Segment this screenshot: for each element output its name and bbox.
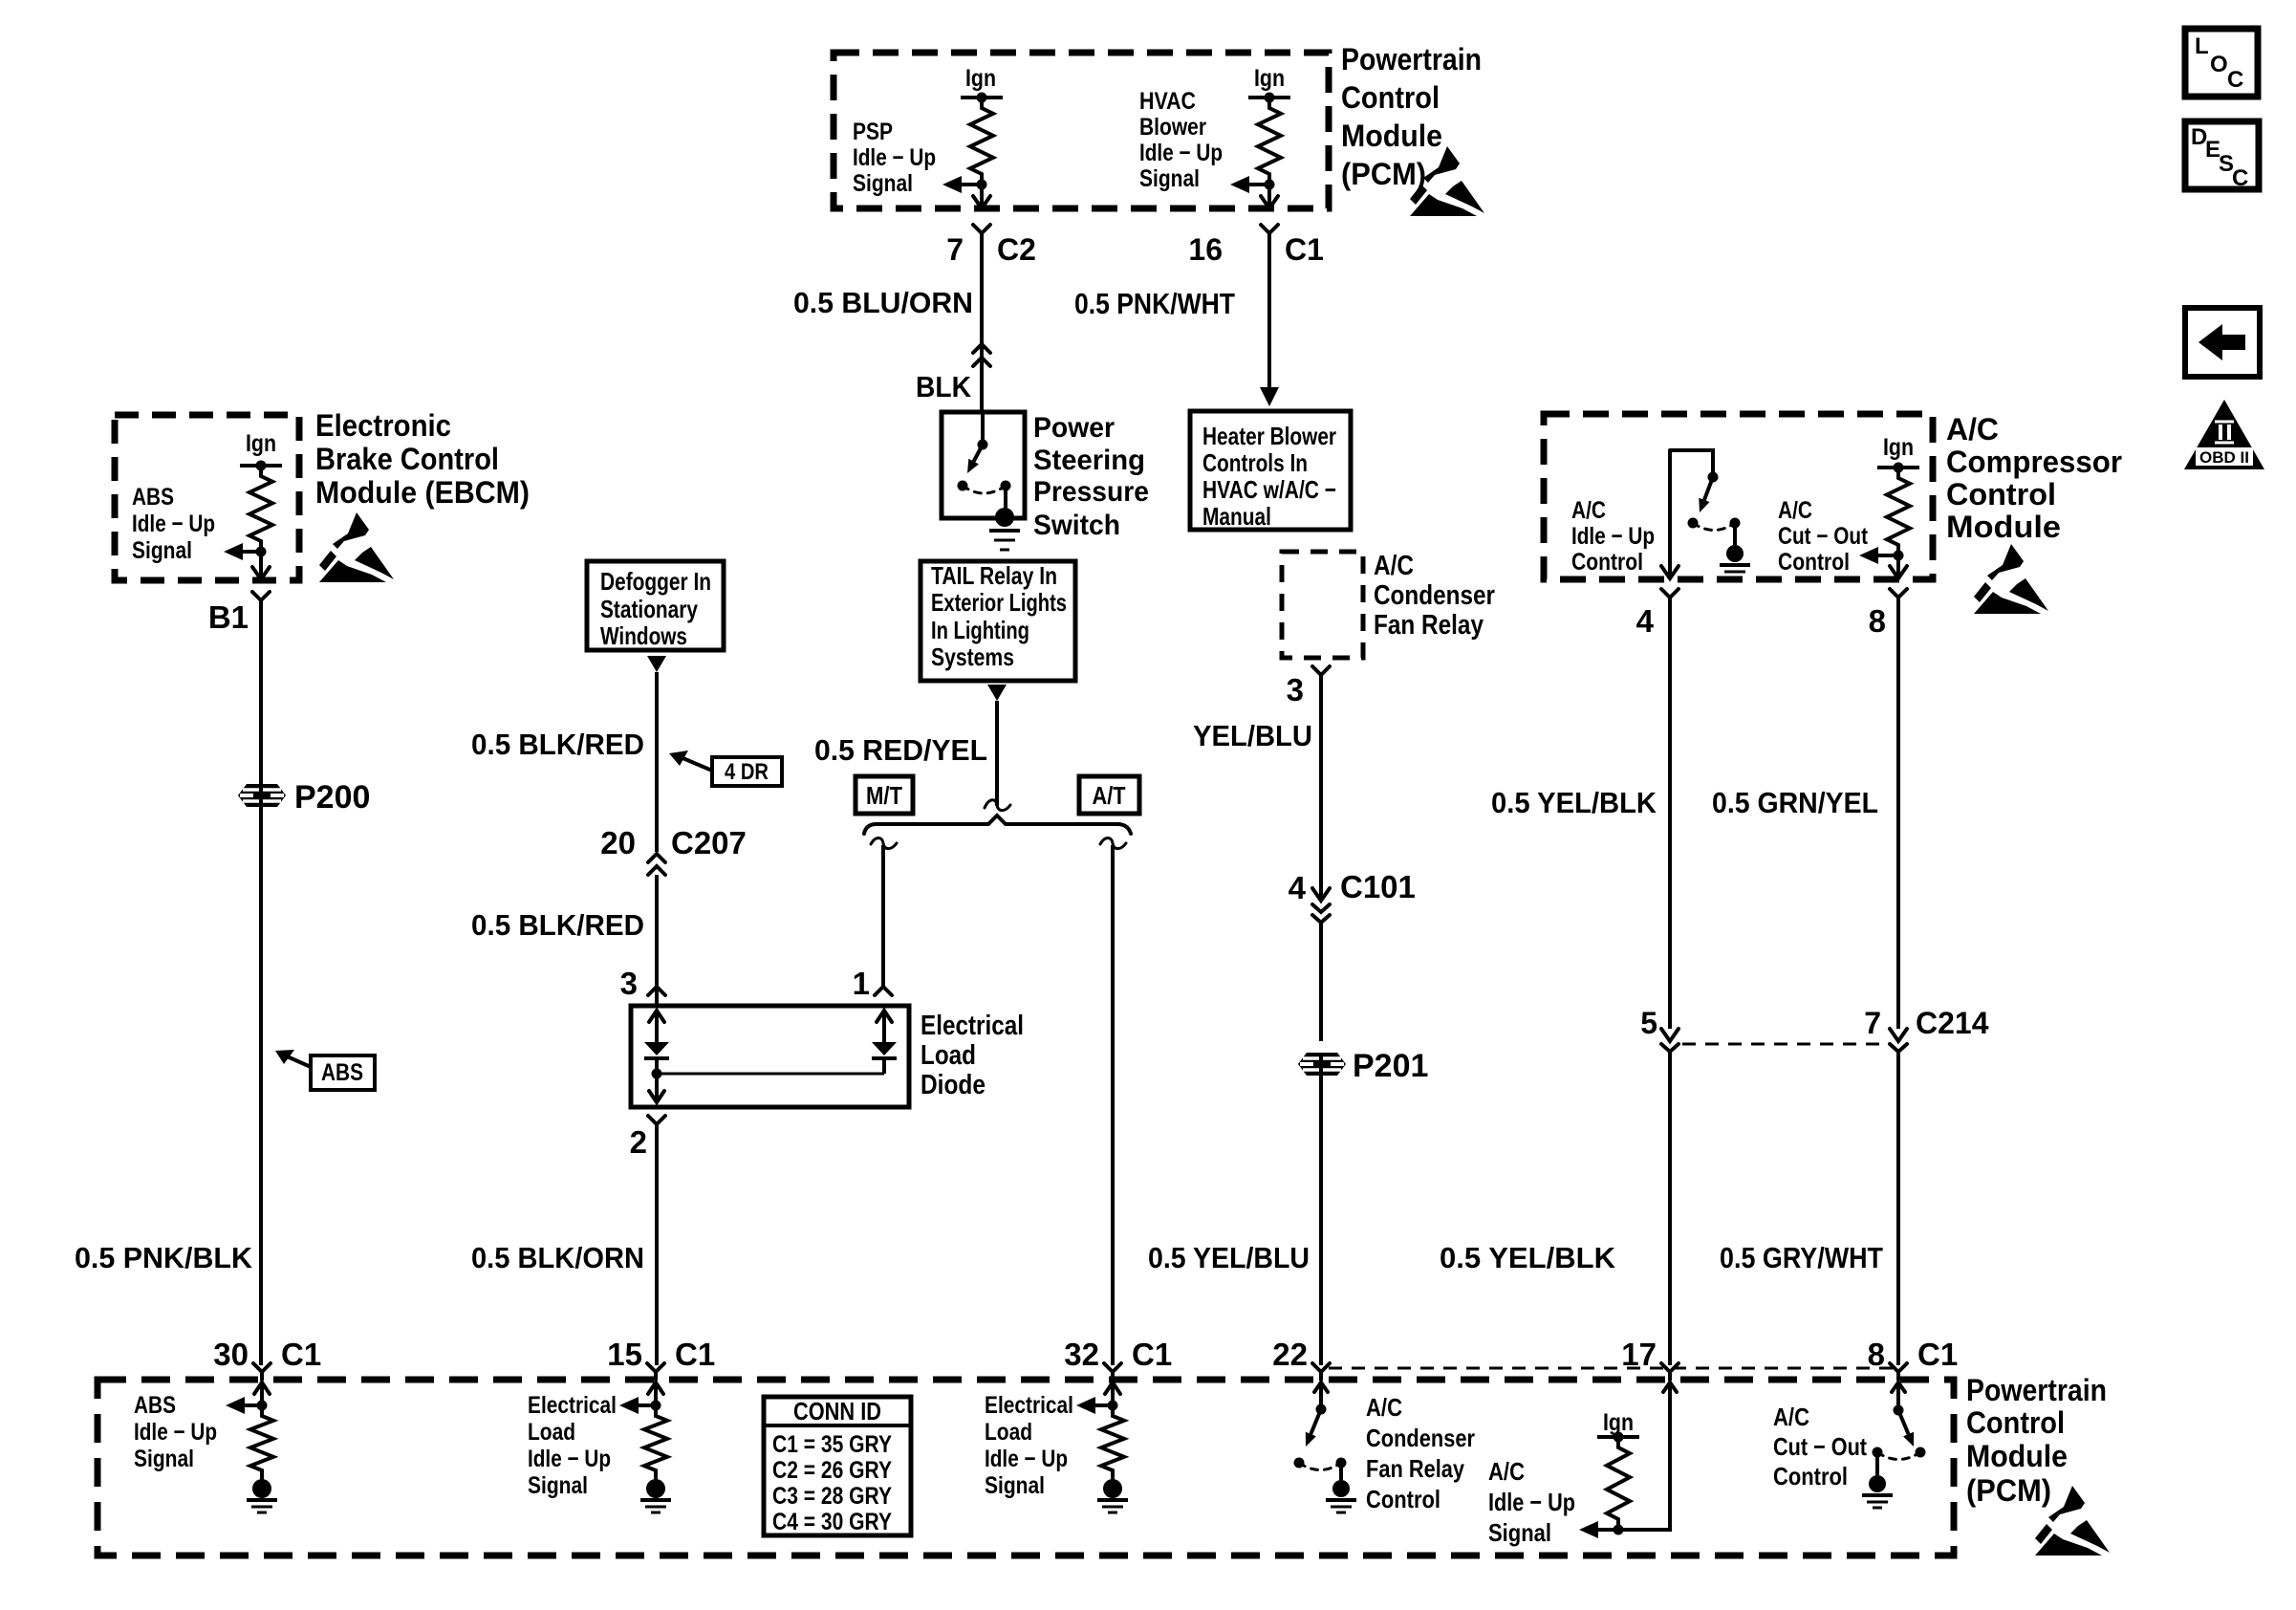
svg-text:A/C: A/C [1374, 551, 1414, 581]
svg-text:A/T: A/T [1093, 781, 1126, 810]
svg-text:Manual: Manual [1202, 502, 1271, 531]
connector C214 pin 5 (arrow + chevron) [1661, 1029, 1679, 1069]
wire A/C idle-up to pin 4 + arrow [1661, 450, 1679, 578]
svg-text:Electrical: Electrical [985, 1392, 1073, 1419]
label pin 20 (C207) [600, 825, 636, 860]
svg-text:Fan Relay: Fan Relay [1366, 1454, 1464, 1483]
label pin 1 (diode) [853, 966, 870, 1001]
label pin 30 bottom [213, 1337, 249, 1372]
label B1 [208, 599, 249, 635]
label P201 [1353, 1048, 1428, 1084]
wire C207 to diode box [655, 875, 659, 1004]
node PSP switch top contact [978, 412, 988, 450]
ground PSP switch [989, 508, 1020, 550]
wire TAIL relay to options brace [995, 701, 999, 806]
connector pin 8 bottom (female Y) [1890, 1363, 1907, 1380]
label TAIL Relay In Exterior Lights In Lighting Systems [931, 561, 1067, 671]
switch travel arc PSP (dashed) [963, 486, 1006, 493]
svg-text:4: 4 [1636, 603, 1655, 639]
label Ign (ABS feed) [246, 430, 276, 457]
svg-text:P200: P200 [294, 779, 370, 816]
arrow signal (left) ABS idle-up (PCM) [226, 1397, 262, 1414]
esd symbol (A/C compressor module) [1974, 544, 2048, 614]
wire PSP pin exit + arrow pin 7 [973, 185, 990, 208]
svg-text:Electrical: Electrical [921, 1011, 1024, 1041]
node A/C idle-up open contact [1688, 518, 1699, 529]
connector pin 15 bottom (female Y) [647, 1363, 664, 1380]
svg-text:C: C [2227, 67, 2243, 93]
svg-text:YEL/BLU: YEL/BLU [1193, 719, 1312, 752]
svg-text:Blower: Blower [1139, 114, 1206, 141]
label C1 (pin16) [1285, 232, 1324, 267]
svg-text:3: 3 [620, 966, 638, 1001]
wire C214-7 to pin 8 bottom [1896, 1069, 1900, 1365]
node junction Electrical Load idle-up (PCM pin32) [1108, 1401, 1118, 1411]
svg-text:Idle − Up: Idle − Up [132, 511, 215, 537]
connector pin 3 (fan relay, female Y) [1312, 666, 1330, 683]
svg-text:Signal: Signal [1488, 1518, 1551, 1547]
svg-text:Module (EBCM): Module (EBCM) [315, 475, 530, 510]
label Defogger In Stationary Windows [600, 567, 711, 650]
wire EBCM pin exit + arrow B1 [252, 552, 270, 579]
label A/C Condenser Fan Relay Control [1366, 1393, 1475, 1513]
label pin 3 (diode) [620, 966, 638, 1001]
wire squiggle (A/T branch top) [1100, 838, 1126, 849]
node A/C cut-out contact (left) [1873, 1447, 1883, 1476]
node junction ABS idle-up (PCM) [257, 1401, 268, 1411]
label Powertrain Control Module (PCM) bottom [1966, 1373, 2107, 1508]
svg-text:C101: C101 [1340, 869, 1416, 904]
label Electrical Load idle-up (PCM pin15) [528, 1392, 617, 1499]
wire C214-5 to pin 17 [1668, 1069, 1672, 1365]
label C2 [997, 232, 1036, 267]
connector pin B1 (female Y) [252, 592, 270, 608]
label 0.5 GRN/YEL [1712, 786, 1878, 819]
svg-text:C4 = 30 GRY: C4 = 30 GRY [772, 1509, 892, 1535]
wire pin3 to C101 [1319, 683, 1323, 900]
label Ign (PSP feed) [965, 65, 996, 92]
svg-text:Cut − Out: Cut − Out [1773, 1432, 1867, 1461]
ground A/C idle-up switch [1720, 545, 1750, 577]
connector pin 8 top (female Y) [1890, 589, 1907, 605]
ground A/C cut-out switch [1862, 1475, 1893, 1508]
svg-text:Signal: Signal [985, 1472, 1045, 1499]
connector C207 chevrons [648, 854, 665, 875]
label 0.5 BLU/ORN [793, 286, 973, 319]
svg-text:C3 = 28 GRY: C3 = 28 GRY [772, 1483, 892, 1510]
arrow pin entry (up) ABS idle-up (PCM) [254, 1382, 270, 1405]
label C4 = 30 GRY [772, 1509, 892, 1535]
svg-text:Controls In: Controls In [1202, 448, 1308, 477]
svg-text:Electronic: Electronic [315, 408, 451, 443]
resistor A/C cut-out control [1887, 468, 1910, 555]
label C1 (pin 30) [281, 1337, 321, 1372]
label pin 5 (C214) [1640, 1006, 1657, 1040]
svg-text:22: 22 [1272, 1337, 1308, 1372]
svg-text:BLK: BLK [916, 370, 972, 403]
wire pin7 to PSP switch [980, 241, 984, 412]
label Ign (A/C cut-out) [1883, 434, 1914, 461]
options brace [864, 816, 1131, 834]
svg-text:20: 20 [600, 825, 636, 860]
svg-text:A/C: A/C [1778, 497, 1812, 524]
label 0.5 YEL/BLK (upper) [1491, 786, 1657, 819]
resistor A/C idle-up signal (PCM) [1607, 1437, 1630, 1530]
svg-text:Module: Module [1946, 510, 2061, 544]
svg-text:A/C: A/C [1488, 1457, 1525, 1486]
label pin 32 bottom [1064, 1337, 1099, 1372]
svg-text:C2 = 26 GRY: C2 = 26 GRY [772, 1457, 892, 1484]
svg-text:Ign: Ign [246, 430, 276, 457]
arrow pin entry (up) A/C cut-out [1892, 1382, 1905, 1405]
svg-text:0.5 RED/YEL: 0.5 RED/YEL [814, 733, 987, 767]
svg-text:Windows: Windows [600, 621, 687, 650]
node fan relay open contact [1294, 1458, 1305, 1469]
splice P201 [1298, 1053, 1346, 1076]
svg-text:A/C: A/C [1571, 497, 1606, 524]
connector pin 7 C2 (female Y) [973, 225, 990, 241]
arrow out of defogger box [647, 656, 666, 672]
label 0.5 RED/YEL [814, 733, 987, 767]
label pin 17 bottom [1621, 1337, 1657, 1372]
switch arm PSP [967, 445, 983, 473]
connector pin 17 bottom (female Y) [1661, 1363, 1679, 1380]
node A/C cut-out junction [1894, 551, 1904, 561]
svg-text:8: 8 [1868, 1337, 1885, 1372]
svg-text:CONN ID: CONN ID [793, 1397, 881, 1425]
ground ABS idle-up (PCM) [247, 1479, 277, 1512]
label A/C Compressor Control Module [1946, 412, 2122, 544]
svg-text:4 DR: 4 DR [725, 759, 769, 785]
box Electrical Load Diode [631, 1006, 909, 1107]
resistor ABS idle-up (PCM) [250, 1405, 273, 1481]
label pin 8 top [1869, 603, 1886, 639]
svg-text:ABS: ABS [132, 484, 174, 511]
svg-text:Signal: Signal [134, 1446, 194, 1472]
arrow PSP idle-up signal (left) [942, 176, 982, 193]
switch travel arc A/C cut-out (dashed) [1877, 1452, 1920, 1460]
svg-text:3: 3 [1287, 672, 1304, 707]
label C101 [1340, 869, 1416, 904]
label Electrical Load Diode [921, 1011, 1024, 1100]
svg-text:HVAC w/A/C −: HVAC w/A/C − [1202, 475, 1336, 504]
label pin 16 [1188, 232, 1223, 267]
resistor ABS idle-up signal (EBCM) [249, 466, 272, 552]
svg-text:Defogger In: Defogger In [600, 567, 711, 596]
label 0.5 BLK/ORN [471, 1241, 644, 1274]
svg-text:Control: Control [1966, 1405, 2065, 1440]
resistor PSP idle-up signal [970, 98, 993, 185]
wire defogger to C207 [655, 672, 659, 852]
node HVAC signal junction [1265, 180, 1275, 190]
svg-text:C1: C1 [281, 1337, 321, 1372]
svg-text:C1: C1 [1285, 232, 1324, 267]
box A/C Condenser Fan Relay (dashed) [1282, 552, 1363, 658]
resistor Electrical Load idle-up (PCM pin15) [644, 1405, 667, 1481]
svg-text:Load: Load [985, 1419, 1032, 1446]
svg-text:Idle − Up: Idle − Up [1571, 523, 1655, 550]
arrow signal (left) Electrical Load idle-up (PCM pin15) [619, 1397, 656, 1414]
connector C214 pin 7 (arrow + chevron) [1890, 1029, 1907, 1069]
svg-text:Control: Control [1341, 80, 1440, 115]
module PCM (bottom) dashed box [97, 1380, 1954, 1556]
wire diode right branch + arrow [877, 1011, 892, 1074]
svg-text:(PCM): (PCM) [1341, 157, 1426, 191]
wire Ign tick (ABS) [240, 461, 282, 471]
svg-text:C: C [2232, 165, 2248, 191]
connector chevron pin 3 (diode in) [648, 987, 665, 995]
connector pin 32 bottom (female Y) [1104, 1363, 1121, 1380]
svg-text:Module: Module [1341, 119, 1442, 153]
label pin 22 bottom [1272, 1337, 1308, 1372]
label 0.5 GRY/WHT [1720, 1241, 1883, 1274]
label Electrical Load idle-up (PCM pin32) [985, 1392, 1073, 1499]
node ABS signal junction (EBCM) [256, 547, 267, 557]
label 0.5 PNK/WHT [1074, 287, 1235, 320]
label ABS Idle-Up Signal (EBCM) [132, 484, 215, 564]
node A/C idle-up pivot [1708, 472, 1719, 483]
svg-text:Switch: Switch [1033, 510, 1120, 541]
label ABS idle-up (PCM) [134, 1392, 217, 1472]
wire B1 to P200 [259, 608, 263, 784]
icon back-arrow box [2185, 308, 2260, 377]
svg-text:Condenser: Condenser [1366, 1424, 1475, 1452]
connector pin 4 (female Y) [1661, 589, 1679, 605]
svg-text:Powertrain: Powertrain [1966, 1373, 2107, 1407]
arrow pin entry (up) Electrical Load idle-up (PCM pin15) [648, 1382, 663, 1405]
svg-text:7: 7 [1864, 1006, 1881, 1040]
svg-text:0.5 BLK/RED: 0.5 BLK/RED [471, 908, 644, 942]
svg-text:Condenser: Condenser [1374, 580, 1495, 611]
label C207 [671, 825, 747, 860]
svg-text:C1 = 35 GRY: C1 = 35 GRY [772, 1431, 892, 1458]
ground Electrical Load idle-up (PCM pin32) [1097, 1479, 1128, 1512]
svg-text:C207: C207 [671, 825, 747, 860]
svg-text:Brake Control: Brake Control [315, 442, 499, 476]
svg-text:Control: Control [1946, 477, 2056, 511]
switch travel arc A/C idle-up (dashed) [1693, 523, 1735, 531]
label PSP Idle-Up Signal [853, 119, 936, 197]
node A/C cut-out closed contact (right) [1916, 1447, 1926, 1458]
label 0.5 PNK/BLK [75, 1241, 253, 1274]
label Powertrain Control Module (PCM) top [1341, 42, 1482, 191]
diode D2 (right) [872, 1042, 897, 1058]
svg-text:M/T: M/T [866, 781, 902, 810]
wire A/C cut-out to pin 8 + arrow [1890, 555, 1907, 578]
label Ign (A/C idle-up PCM) [1603, 1409, 1634, 1436]
svg-text:7: 7 [946, 232, 964, 267]
ground fan relay control switch [1326, 1480, 1356, 1512]
svg-text:30: 30 [213, 1337, 249, 1372]
wire A/T branch to pin 32 [1111, 845, 1115, 1365]
connector pin 30 bottom (female Y) [253, 1363, 271, 1380]
module PCM (top) dashed box [834, 53, 1329, 208]
wire squiggle (TAIL end) [985, 800, 1010, 811]
connector chevron pin 1 (diode in) [875, 987, 892, 995]
node fan relay closed contact [1336, 1458, 1347, 1481]
label P200 [294, 779, 370, 816]
svg-text:C1: C1 [1917, 1337, 1958, 1372]
wire junction to pin 17 + arrow [1618, 1382, 1677, 1530]
svg-text:Idle − Up: Idle − Up [1139, 140, 1223, 166]
switch arm A/C cut-out (PCM) [1898, 1410, 1914, 1447]
svg-text:Ign: Ign [965, 65, 996, 92]
splice P200 [238, 784, 286, 807]
esd symbol (top PCM) [1410, 146, 1484, 216]
svg-text:0.5 BLU/ORN: 0.5 BLU/ORN [793, 286, 973, 319]
svg-text:Signal: Signal [1139, 165, 1200, 192]
svg-text:OBD II: OBD II [2199, 448, 2249, 467]
esd symbol (EBCM) [319, 512, 394, 582]
arrow into heater blower box [1260, 387, 1279, 406]
svg-text:Load: Load [528, 1419, 575, 1446]
label Electronic Brake Control Module (EBCM) [315, 408, 530, 510]
svg-text:Cut − Out: Cut − Out [1778, 523, 1869, 550]
wire pin4 to C214 [1668, 605, 1672, 1029]
svg-text:A/C: A/C [1366, 1393, 1402, 1422]
svg-text:Load: Load [921, 1040, 976, 1071]
wire M/T branch to diode pin 1 [881, 845, 885, 987]
svg-text:Electrical: Electrical [528, 1392, 617, 1419]
label C1 = 35 GRY [772, 1431, 892, 1458]
wire A/C idle-up jog [1670, 450, 1713, 472]
box Defogger In Stationary Windows [587, 561, 724, 650]
wire P201 to pin 22 [1319, 1076, 1323, 1365]
svg-text:0.5 YEL/BLU: 0.5 YEL/BLU [1148, 1241, 1310, 1274]
svg-text:2: 2 [630, 1124, 647, 1160]
svg-text:Idle − Up: Idle − Up [985, 1446, 1068, 1472]
wire Ign tick (A/C idle-up PCM) [1597, 1432, 1639, 1443]
svg-text:C2: C2 [997, 232, 1036, 267]
label HVAC Blower Idle-Up Signal [1139, 88, 1223, 192]
svg-text:Signal: Signal [853, 170, 913, 197]
resistor HVAC blower idle-up signal [1258, 98, 1281, 185]
svg-text:B1: B1 [208, 599, 249, 635]
svg-text:Ign: Ign [1883, 434, 1914, 461]
resistor Electrical Load idle-up (PCM pin32) [1101, 1405, 1124, 1481]
label pin 4 (C101) [1289, 870, 1307, 905]
box TAIL Relay In Exterior Lights In Lighting Systems [921, 561, 1075, 681]
svg-text:4: 4 [1289, 870, 1307, 905]
label pin 7 [946, 232, 964, 267]
svg-text:0.5 YEL/BLK: 0.5 YEL/BLK [1491, 786, 1657, 819]
wire squiggle (M/T branch top) [871, 838, 897, 849]
svg-text:Systems: Systems [931, 642, 1014, 671]
svg-text:Idle − Up: Idle − Up [1488, 1488, 1575, 1516]
arrow A/C idle-up signal (left, PCM) [1579, 1521, 1618, 1538]
svg-text:8: 8 [1869, 603, 1886, 639]
svg-text:Control: Control [1571, 549, 1643, 576]
wire C214 option link (dashed) [1682, 1043, 1887, 1046]
node PSP switch open contact [958, 481, 968, 491]
svg-text:17: 17 [1621, 1337, 1657, 1372]
label Power Steering Pressure Switch [1033, 412, 1149, 541]
label A/C Idle-Up Control [1571, 497, 1655, 576]
label pin 15 bottom [607, 1337, 642, 1372]
svg-text:P201: P201 [1353, 1048, 1428, 1084]
module A/C Compressor Control Module dashed box [1544, 414, 1933, 579]
arrow signal (left) Electrical Load idle-up (PCM pin32) [1076, 1397, 1113, 1414]
svg-text:Control: Control [1366, 1485, 1440, 1513]
wire Ign tick (HVAC) [1248, 93, 1290, 103]
node A/C idle-up closed contact [1730, 518, 1741, 546]
svg-text:(PCM): (PCM) [1966, 1473, 2051, 1508]
wire HVAC pin exit + arrow pin 16 [1261, 185, 1278, 208]
node A/C cut-out pivot (PCM) [1894, 1405, 1904, 1416]
label BLK [916, 370, 972, 403]
label pin 7 (C214) [1864, 1006, 1881, 1040]
svg-text:5: 5 [1640, 1006, 1657, 1040]
arrow ABS idle-up signal (left) [224, 543, 261, 560]
svg-text:Pressure: Pressure [1033, 476, 1149, 508]
connector C101 (arrow + chevron + Y) [1312, 888, 1330, 932]
svg-text:Control: Control [1778, 549, 1850, 576]
icon OBD II triangle [2184, 400, 2264, 469]
wire diode to pin 15 [655, 1132, 659, 1365]
label pin 3 [1287, 672, 1304, 707]
svg-text:Stationary: Stationary [600, 595, 698, 623]
arrow HVAC idle-up signal (left) [1230, 176, 1269, 193]
label 0.5 YEL/BLK (lower) [1440, 1241, 1616, 1274]
wire option link pins 22-17-8 (thin dashed) [1329, 1367, 1893, 1370]
svg-text:C1: C1 [675, 1337, 715, 1372]
connector pin 2 (female Y) [648, 1116, 665, 1132]
node A/C idle-up junction (PCM) [1614, 1525, 1624, 1535]
label pin 2 (diode) [630, 1124, 647, 1160]
wire pin16 to heater blower box [1267, 241, 1271, 390]
label Ign (HVAC feed) [1254, 65, 1285, 92]
label 0.5 YEL/BLU [1148, 1241, 1310, 1274]
svg-text:Idle − Up: Idle − Up [134, 1419, 217, 1446]
label A/C Cut-Out Control [1778, 497, 1869, 576]
svg-text:A/C: A/C [1946, 412, 1999, 446]
label C3 = 28 GRY [772, 1483, 892, 1510]
tag box ABS + arrow [275, 1050, 375, 1090]
connector in-line chevrons (BLU/ORN to BLK) [973, 344, 990, 366]
svg-text:C1: C1 [1132, 1337, 1172, 1372]
box Heater Blower Controls [1190, 411, 1351, 530]
svg-text:TAIL Relay In: TAIL Relay In [931, 561, 1057, 590]
label A/C Condenser Fan Relay [1374, 551, 1495, 641]
svg-text:Compressor: Compressor [1946, 445, 2122, 479]
svg-text:0.5 PNK/BLK: 0.5 PNK/BLK [75, 1241, 253, 1274]
svg-text:Signal: Signal [132, 537, 192, 564]
wire diode left branch + arrows [649, 1011, 664, 1102]
node fan relay control pivot [1316, 1404, 1327, 1415]
arrow A/C cut-out control (left) [1859, 547, 1898, 564]
svg-text:Exterior Lights: Exterior Lights [931, 588, 1067, 617]
svg-text:15: 15 [607, 1337, 642, 1372]
label A/C Idle-Up Signal (PCM) [1488, 1457, 1575, 1547]
ground Electrical Load idle-up (PCM pin15) [640, 1479, 671, 1512]
svg-text:0.5 BLK/RED: 0.5 BLK/RED [471, 728, 644, 761]
switch travel arc fan relay (dashed) [1299, 1463, 1341, 1470]
wire C101 to P201 [1319, 932, 1323, 1041]
svg-text:Diode: Diode [921, 1070, 986, 1100]
label A/C Cut-Out Control (PCM) [1773, 1403, 1867, 1490]
svg-text:Module: Module [1966, 1439, 2068, 1473]
connector pin 16 C1 (female Y) [1261, 225, 1278, 241]
arrow pin entry (up) fan relay control [1314, 1382, 1328, 1404]
wire P200 to pin 30 [259, 807, 263, 1365]
tag box A/T [1079, 776, 1139, 814]
node junction Electrical Load idle-up (PCM pin15) [651, 1401, 661, 1411]
table CONN ID box [764, 1397, 911, 1535]
icon DESC box [2185, 121, 2259, 191]
box Power Steering Pressure Switch [942, 412, 1025, 518]
svg-text:1: 1 [853, 966, 870, 1001]
switch arm fan relay control [1306, 1409, 1321, 1447]
